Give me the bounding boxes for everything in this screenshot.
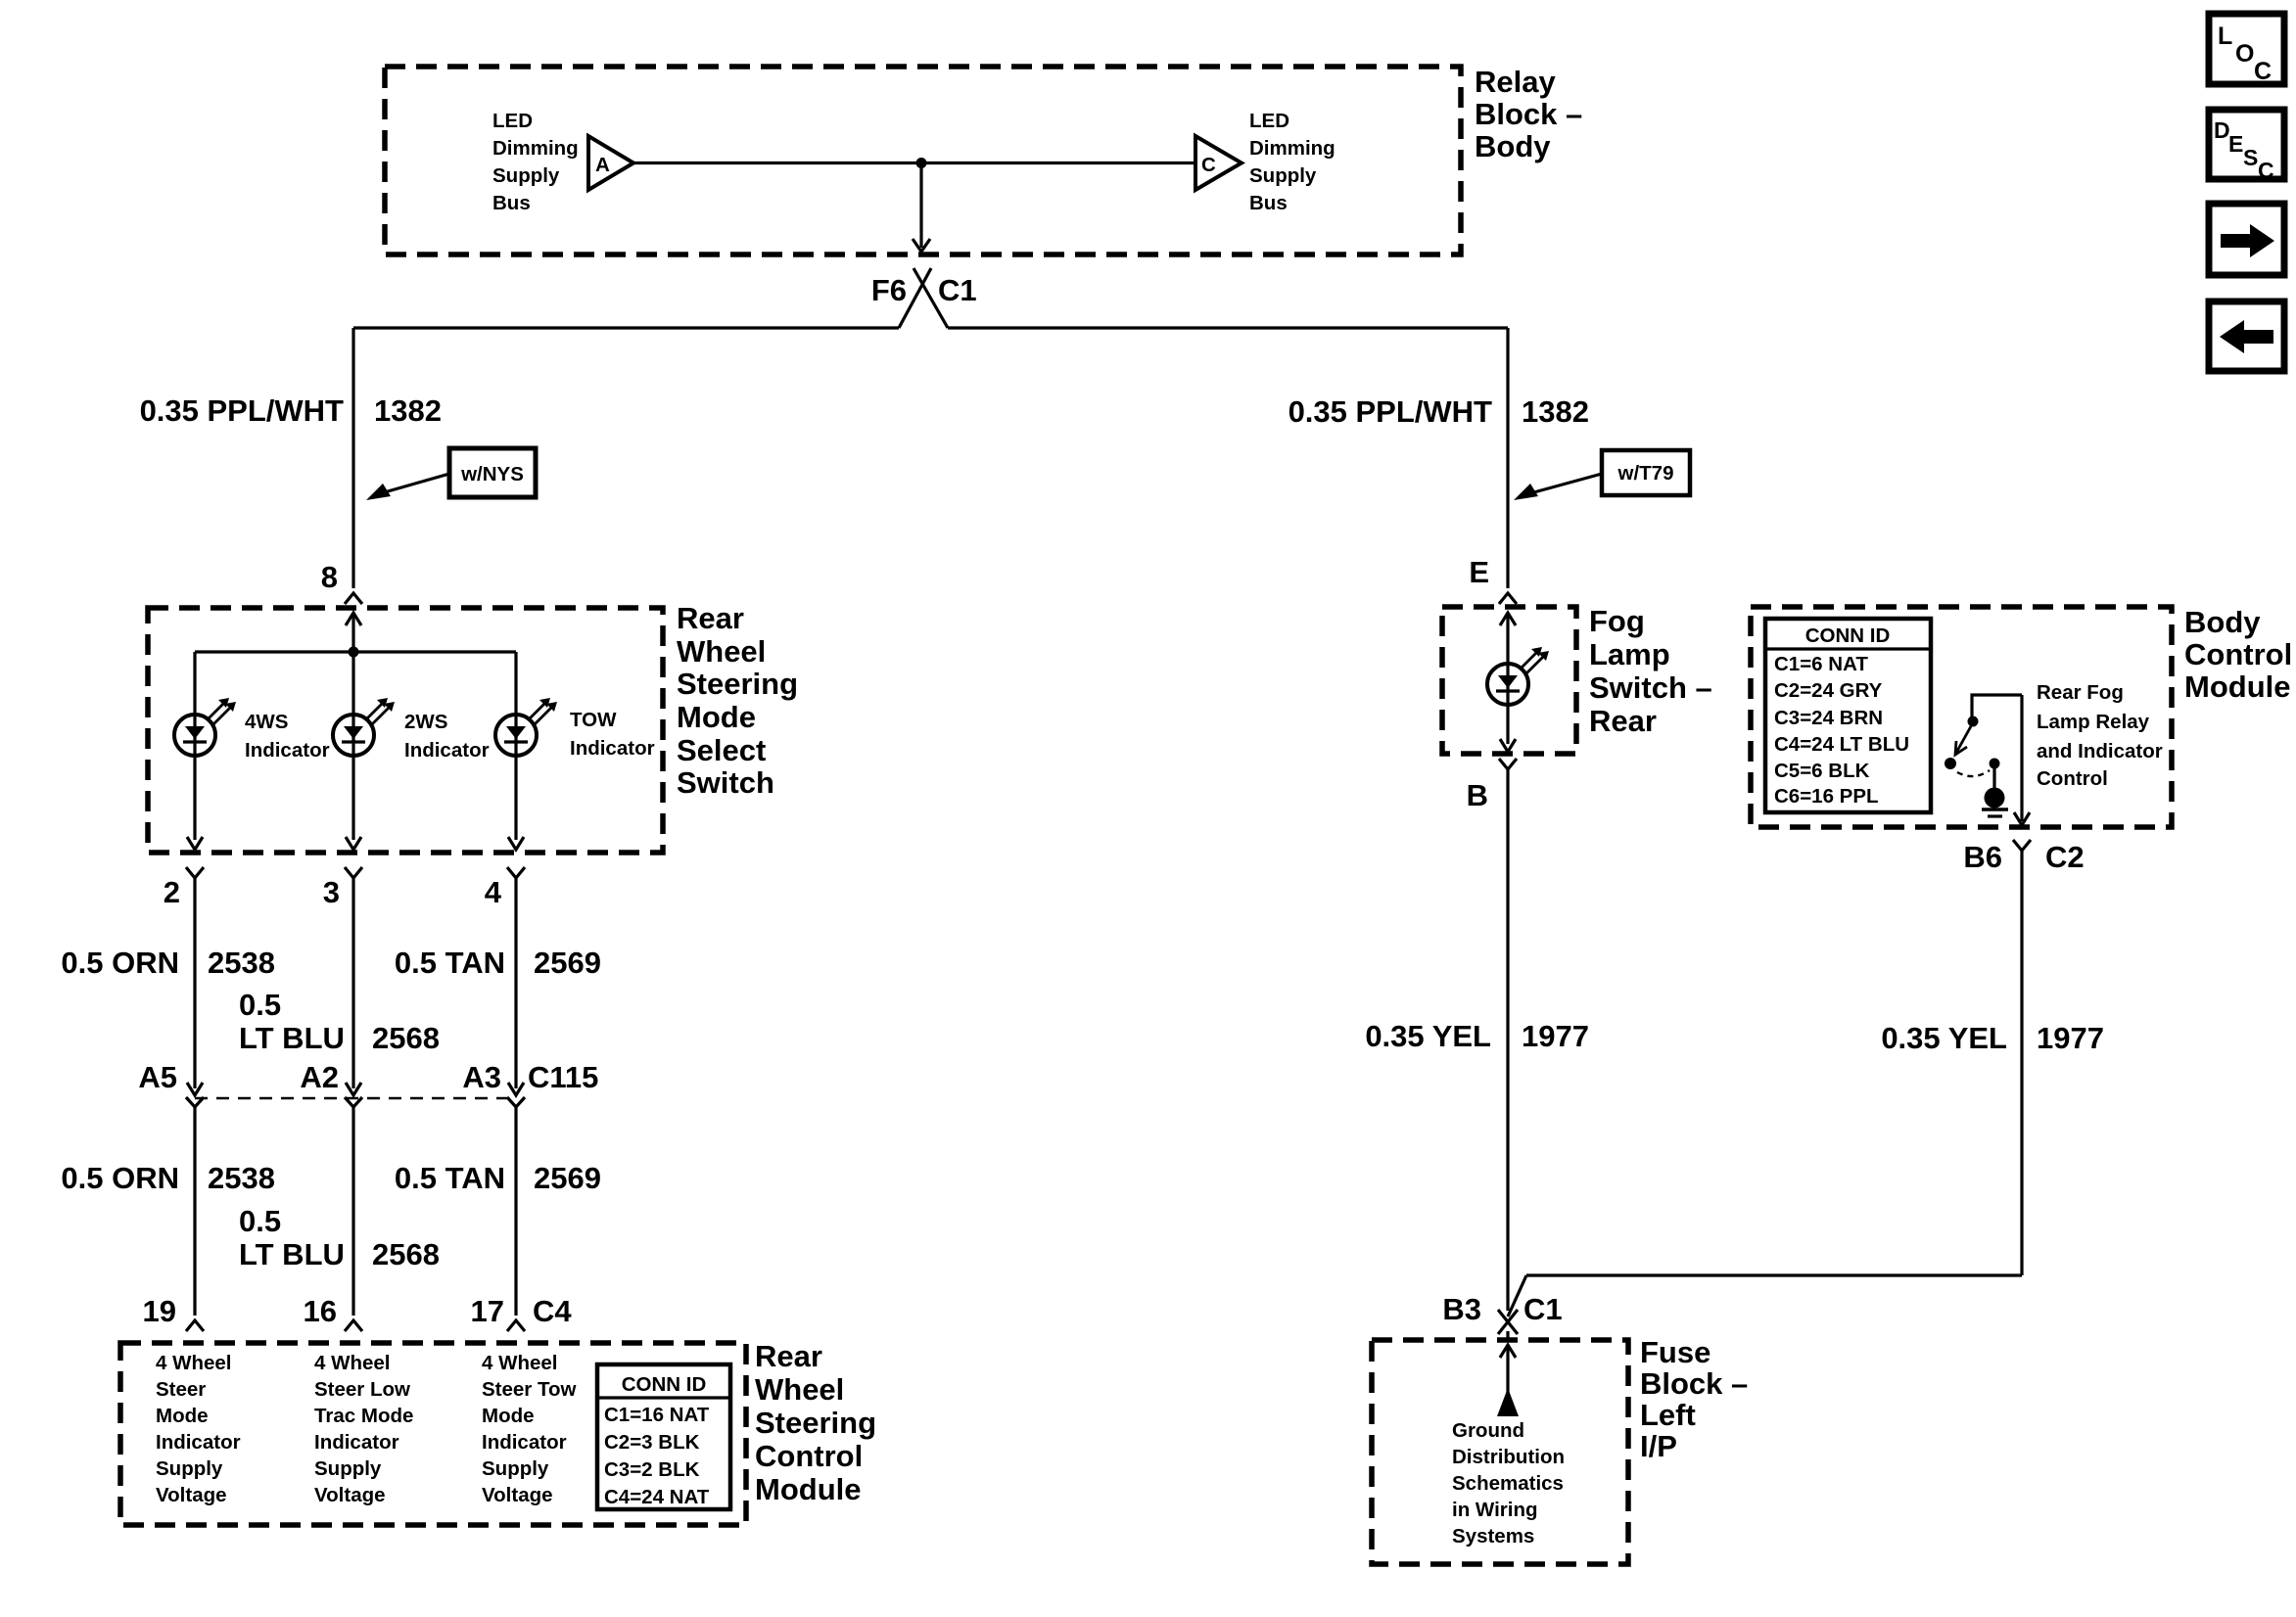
module CONN ID table [597, 1364, 730, 1509]
svg-text:Control: Control [2184, 637, 2292, 671]
svg-text:C4=24 NAT: C4=24 NAT [604, 1486, 710, 1508]
pin 2 chevron below switch [186, 867, 204, 878]
svg-text:0.5 ORN: 0.5 ORN [61, 946, 179, 980]
svg-text:C5=6 BLK: C5=6 BLK [1774, 760, 1870, 782]
fuse block - left I/P dashed box [1372, 1340, 1628, 1564]
svg-text:2538: 2538 [208, 946, 275, 980]
svg-text:C2: C2 [2045, 840, 2085, 874]
svg-text:Indicator: Indicator [482, 1431, 567, 1454]
pin 8 terminal arrow inside switch [346, 613, 361, 625]
svg-text:C: C [2254, 58, 2272, 85]
svg-text:C3=24 BRN: C3=24 BRN [1774, 707, 1883, 729]
svg-text:Control: Control [2037, 767, 2108, 790]
LED fog lamp switch indicator [1487, 664, 1528, 705]
svg-text:Block –: Block – [1640, 1366, 1748, 1401]
svg-text:Bus: Bus [1249, 192, 1288, 214]
svg-text:Mode: Mode [482, 1405, 535, 1427]
svg-text:Steer: Steer [156, 1378, 206, 1401]
svg-text:A: A [595, 154, 610, 176]
pin 2 terminal arrow [187, 837, 203, 850]
svg-text:E: E [2228, 131, 2243, 157]
connector triangle C [1195, 136, 1242, 190]
wire pin 2 through 4WS LED [193, 652, 196, 840]
svg-text:0.5 TAN: 0.5 TAN [395, 946, 505, 980]
svg-text:I/P: I/P [1640, 1429, 1677, 1463]
svg-text:A2: A2 [300, 1060, 339, 1094]
svg-text:C1=6 NAT: C1=6 NAT [1774, 653, 1868, 675]
junction dot inside switch [349, 647, 359, 658]
LED TOW rays [529, 703, 545, 719]
svg-text:Voltage: Voltage [482, 1484, 553, 1506]
svg-text:Supply: Supply [482, 1457, 549, 1480]
svg-text:Switch: Switch [677, 765, 774, 800]
svg-text:2568: 2568 [372, 1021, 440, 1055]
LED TOW indicator [495, 715, 537, 756]
svg-text:Indicator: Indicator [404, 739, 490, 762]
svg-text:C4: C4 [533, 1294, 572, 1328]
terminal arrow inside fuse block [1500, 1345, 1516, 1358]
svg-text:Trac Mode: Trac Mode [314, 1405, 413, 1427]
wire 0.5 LT BLU lower [351, 1107, 354, 1316]
svg-text:A3: A3 [462, 1060, 501, 1094]
BCM switch output wire [2020, 695, 2023, 821]
pin B chevron below fog box [1499, 759, 1517, 769]
branch diagonal at B3 [1508, 1275, 1526, 1317]
svg-text:Module: Module [2184, 670, 2291, 704]
svg-text:Wheel: Wheel [755, 1372, 844, 1407]
wire bus left of F6 [353, 326, 899, 329]
svg-text:S: S [2243, 145, 2258, 170]
svg-text:Schematics: Schematics [1452, 1472, 1564, 1495]
pin B terminal arrow inside fog box [1500, 739, 1516, 752]
svg-text:2538: 2538 [208, 1161, 275, 1195]
arrowhead at relay block bottom edge [913, 239, 930, 252]
svg-text:Steering: Steering [755, 1406, 876, 1440]
svg-text:0.5: 0.5 [239, 1204, 281, 1238]
wire 0.5 TAN lower [514, 1107, 517, 1316]
svg-text:Module: Module [755, 1472, 862, 1506]
svg-text:Supply: Supply [156, 1457, 223, 1480]
svg-text:17: 17 [471, 1294, 504, 1328]
wire 0.35 YEL left vertical [1506, 769, 1509, 1311]
svg-text:Rear: Rear [1589, 704, 1657, 738]
svg-text:w/T79: w/T79 [1617, 462, 1674, 485]
LED 4WS rays [208, 703, 224, 719]
callout box w/T79 [1602, 450, 1690, 495]
svg-text:Fuse: Fuse [1640, 1335, 1710, 1369]
inline connector chevrons below C115 [186, 1097, 204, 1107]
svg-text:0.35 PPL/WHT: 0.35 PPL/WHT [140, 393, 344, 428]
svg-text:Voltage: Voltage [156, 1484, 227, 1506]
svg-text:LED: LED [1249, 110, 1289, 132]
svg-text:1382: 1382 [374, 393, 442, 428]
svg-text:C1=16 NAT: C1=16 NAT [604, 1404, 710, 1426]
BCM ground stem [1992, 766, 1995, 789]
LED fog rays [1521, 652, 1537, 669]
svg-text:2568: 2568 [372, 1237, 440, 1271]
svg-text:Select: Select [677, 733, 766, 767]
LED 2WS indicator [333, 715, 374, 756]
svg-text:C2=24 GRY: C2=24 GRY [1774, 679, 1883, 702]
svg-text:TOW: TOW [570, 709, 617, 731]
BCM switch pivot dot [1968, 716, 1979, 727]
svg-text:Supply: Supply [314, 1457, 382, 1480]
svg-text:1977: 1977 [2037, 1021, 2104, 1055]
pin 4 terminal arrow [508, 837, 524, 850]
rear wheel steering mode select switch dashed box [148, 608, 663, 853]
wire bus right of C1 [948, 326, 1508, 329]
svg-text:C4=24 LT BLU: C4=24 LT BLU [1774, 733, 1909, 756]
wire to ground reference triangle [1506, 1345, 1509, 1394]
svg-text:4 Wheel: 4 Wheel [156, 1352, 231, 1374]
svg-text:C6=16 PPL: C6=16 PPL [1774, 785, 1879, 808]
wire 0.5 ORN upper [193, 878, 196, 1088]
BCM ground symbol [1982, 808, 2008, 811]
svg-text:C1: C1 [938, 273, 977, 307]
svg-text:B6: B6 [1963, 840, 2002, 874]
wire right vertical 0.35 PPL/WHT [1506, 328, 1509, 588]
inline connector arrows at C115 [187, 1083, 203, 1095]
corner icon right arrow box [2209, 204, 2284, 275]
body control module dashed box [1751, 607, 2172, 827]
svg-text:0.5: 0.5 [239, 988, 281, 1022]
pin E chevron [1499, 593, 1517, 604]
junction dot on bus [916, 158, 927, 168]
BCM ground contact dot [1990, 759, 2000, 769]
wire junction horizontal [195, 650, 516, 653]
svg-text:A5: A5 [138, 1060, 177, 1094]
svg-text:0.35 PPL/WHT: 0.35 PPL/WHT [1289, 394, 1492, 429]
svg-text:C: C [2258, 158, 2274, 183]
wire 0.5 ORN lower [193, 1107, 196, 1316]
svg-text:2WS: 2WS [404, 711, 447, 733]
svg-text:4 Wheel: 4 Wheel [314, 1352, 390, 1374]
svg-text:4WS: 4WS [245, 711, 288, 733]
wire pin E to pin B through fog LED [1506, 613, 1509, 744]
callout arrow w/T79 [1530, 474, 1602, 493]
branch vertical wire 0.35 YEL right [2020, 851, 2023, 1275]
pin 8 chevron [345, 593, 362, 604]
svg-text:8: 8 [321, 560, 338, 594]
relay block - body dashed box [385, 67, 1461, 254]
svg-text:Lamp Relay: Lamp Relay [2037, 711, 2150, 733]
svg-text:0.5 ORN: 0.5 ORN [61, 1161, 179, 1195]
wire pin 8 to junction [351, 613, 354, 652]
pin 16 chevron [345, 1320, 362, 1331]
svg-text:0.35 YEL: 0.35 YEL [1881, 1021, 2007, 1055]
svg-text:LED: LED [492, 110, 533, 132]
svg-text:Mode: Mode [677, 700, 756, 734]
svg-text:Supply: Supply [1249, 164, 1317, 187]
wire bus A to C [633, 162, 1195, 164]
svg-text:Distribution: Distribution [1452, 1446, 1565, 1468]
wire left vertical 0.35 PPL/WHT [351, 328, 354, 588]
svg-text:LT BLU: LT BLU [239, 1237, 345, 1271]
svg-text:19: 19 [143, 1294, 176, 1328]
corner icon LOC box [2209, 14, 2284, 84]
svg-text:CONN ID: CONN ID [622, 1373, 707, 1396]
connector F6-C1 crossing X [899, 268, 931, 328]
svg-text:3: 3 [323, 875, 340, 909]
svg-text:Steer Tow: Steer Tow [482, 1378, 576, 1401]
svg-text:Body: Body [1475, 129, 1551, 163]
inline connector dashed line C115 [195, 1097, 516, 1100]
svg-text:C: C [1201, 154, 1216, 176]
pin 3 terminal arrow [346, 837, 361, 850]
LED 2WS rays [366, 703, 383, 719]
svg-text:B: B [1467, 778, 1488, 812]
svg-text:C115: C115 [528, 1060, 598, 1094]
svg-text:O: O [2235, 40, 2254, 68]
branch horizontal wire [1526, 1273, 2022, 1276]
svg-text:F6: F6 [871, 273, 907, 307]
svg-text:Steering: Steering [677, 667, 798, 701]
BCM switch travel dashed arc [1957, 770, 1990, 776]
svg-text:Body: Body [2184, 605, 2261, 639]
svg-text:2569: 2569 [534, 1161, 601, 1195]
svg-text:and Indicator: and Indicator [2037, 740, 2163, 762]
svg-text:C1: C1 [1523, 1292, 1563, 1326]
svg-text:Dimming: Dimming [492, 137, 579, 160]
svg-text:Rear: Rear [755, 1339, 822, 1373]
svg-text:Systems: Systems [1452, 1525, 1534, 1548]
svg-text:16: 16 [304, 1294, 337, 1328]
pin 17 chevron [507, 1320, 525, 1331]
svg-text:Indicator: Indicator [156, 1431, 241, 1454]
svg-text:Supply: Supply [492, 164, 560, 187]
wire 0.5 LT BLU upper [351, 878, 354, 1088]
svg-text:Indicator: Indicator [314, 1431, 399, 1454]
svg-text:LT BLU: LT BLU [239, 1021, 345, 1055]
corner icon DESC box [2209, 110, 2284, 179]
callout arrow w/NYS [381, 474, 449, 493]
svg-text:Rear: Rear [677, 601, 744, 635]
wire pin 3 through 2WS LED [351, 652, 354, 840]
svg-text:Rear Fog: Rear Fog [2037, 681, 2124, 704]
svg-text:Indicator: Indicator [570, 737, 655, 760]
pin 3 chevron below switch [345, 867, 362, 878]
ground reference solid triangle [1497, 1388, 1519, 1416]
wire pin 4 through TOW LED [514, 652, 517, 840]
svg-text:Steer Low: Steer Low [314, 1378, 410, 1401]
svg-text:Block –: Block – [1475, 97, 1582, 131]
wire into fuse block [1506, 1331, 1509, 1341]
svg-text:4: 4 [485, 875, 502, 909]
BCM ground ball [1985, 788, 2005, 808]
BCM CONN ID table [1765, 619, 1931, 812]
wire 0.5 TAN upper [514, 878, 517, 1088]
corner icon left arrow box [2209, 301, 2284, 371]
svg-text:Lamp: Lamp [1589, 637, 1670, 671]
svg-text:Voltage: Voltage [314, 1484, 386, 1506]
rear wheel steering control module dashed box [120, 1343, 746, 1525]
svg-text:1977: 1977 [1522, 1019, 1589, 1053]
fog lamp switch - rear dashed box [1442, 607, 1576, 754]
pin B6 chevron below BCM [2013, 840, 2031, 851]
BCM switch lower contact dot [1945, 758, 1956, 769]
pin E terminal arrow inside fog box [1500, 613, 1516, 625]
wire drop from bus junction [919, 163, 922, 249]
svg-text:C3=2 BLK: C3=2 BLK [604, 1458, 700, 1481]
svg-text:Indicator: Indicator [245, 739, 330, 762]
svg-text:0.35 YEL: 0.35 YEL [1365, 1019, 1491, 1053]
connector triangle A [588, 136, 633, 190]
svg-text:Ground: Ground [1452, 1419, 1524, 1442]
svg-text:Wheel: Wheel [677, 634, 766, 669]
svg-text:1382: 1382 [1522, 394, 1589, 429]
svg-text:Fog: Fog [1589, 604, 1645, 638]
BCM relay switch feed wire L [1972, 695, 2022, 721]
svg-text:Dimming: Dimming [1249, 137, 1335, 160]
pin 4 chevron below switch [507, 867, 525, 878]
svg-text:C2=3 BLK: C2=3 BLK [604, 1431, 700, 1454]
svg-text:Mode: Mode [156, 1405, 209, 1427]
callout box w/NYS [449, 448, 536, 497]
svg-text:Control: Control [755, 1439, 863, 1473]
pin 19 chevron [186, 1320, 204, 1331]
svg-text:CONN ID: CONN ID [1805, 624, 1891, 647]
svg-text:0.5 TAN: 0.5 TAN [395, 1161, 505, 1195]
svg-text:E: E [1469, 555, 1489, 589]
terminal arrow at BCM bottom edge [2014, 812, 2030, 825]
svg-text:w/NYS: w/NYS [460, 463, 524, 485]
svg-text:L: L [2218, 23, 2232, 50]
svg-text:in Wiring: in Wiring [1452, 1499, 1538, 1521]
connector B3-C1 crossing X [1498, 1310, 1518, 1334]
svg-text:Bus: Bus [492, 192, 531, 214]
svg-text:B3: B3 [1442, 1292, 1481, 1326]
svg-text:4 Wheel: 4 Wheel [482, 1352, 557, 1374]
svg-text:2569: 2569 [534, 946, 601, 980]
BCM switch blade arrow [1956, 726, 1971, 753]
svg-text:Relay: Relay [1475, 65, 1556, 99]
svg-text:Switch –: Switch – [1589, 670, 1712, 705]
LED 4WS indicator [174, 715, 215, 756]
svg-text:2: 2 [164, 875, 180, 909]
svg-text:Left: Left [1640, 1398, 1696, 1432]
